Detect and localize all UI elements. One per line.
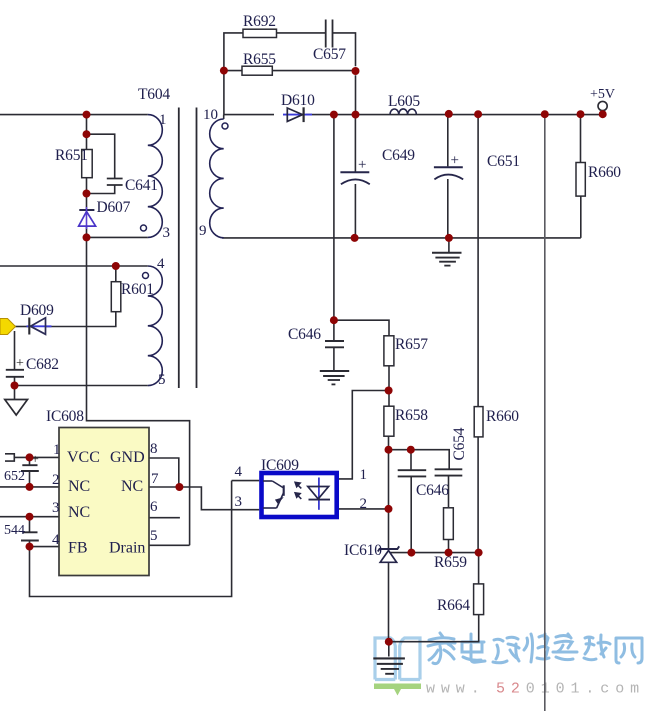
wire IC608 pin8 [149,458,179,487]
wire IC608 pin1 [14,456,59,458]
svg-text:R660: R660 [588,164,621,181]
wire IC610 output row [390,552,479,554]
wire IC608 pin3 [0,516,59,518]
opto transistor [263,481,284,508]
svg-text:9: 9 [199,223,207,239]
svg-text:T604: T604 [138,86,170,103]
svg-text:3: 3 [163,225,171,241]
capacitor C657 [326,20,333,48]
zener IC610 [378,546,399,562]
wire top-left rail to pin1 [0,114,148,116]
svg-text:R657: R657 [395,336,428,353]
resistor R655 [242,66,272,75]
wire C652 stubs [29,457,31,487]
svg-text:C641: C641 [125,177,158,194]
capacitor C649a electrolytic [340,172,369,184]
resistor R601 [111,282,121,312]
svg-text:3: 3 [52,500,60,516]
+5V terminal [598,101,607,110]
wire +5V stub [602,111,604,114]
resistor R664 [474,584,484,615]
svg-text:R601: R601 [121,281,154,298]
ground earth bottom [373,658,405,673]
capacitor C641 [107,179,123,186]
phase dot secondary [222,123,228,129]
svg-text:NC: NC [68,478,90,495]
diode D607 [79,207,96,229]
watermark book icon [375,638,420,680]
wire top rail secondary [224,114,274,116]
svg-text:6: 6 [150,499,158,515]
svg-text:IC609: IC609 [261,457,299,474]
wire zener bottom [388,562,390,641]
wire R657/R658 node left arm [352,390,389,392]
opto LED [308,478,330,510]
wire opto pin1 to R657/R658 node [339,391,352,479]
svg-text:NC: NC [121,478,143,495]
watermark chinese text 家电维修资料网 [428,633,642,664]
svg-text:+: + [16,356,24,371]
capacitor C682 [6,370,24,377]
capacitor C544 [21,532,39,540]
svg-text:R659: R659 [434,554,467,571]
capacitor C652 [21,465,39,471]
svg-text:5: 5 [150,528,158,544]
wire R601 [46,266,116,327]
wire pin5 rail [15,385,148,387]
svg-text:8: 8 [150,441,158,457]
wire C654 to R659 [448,476,450,507]
svg-text:0101.com: 0101.com [526,681,645,698]
wire pin3 [87,236,148,238]
transformer T604 winding 1-3 [148,115,163,238]
IC608 body [59,428,149,576]
wire C682 vertical [14,331,16,399]
wire R659 bottom stub [448,540,450,553]
wire pin4 rail [0,265,148,267]
svg-text:7: 7 [151,471,159,487]
connector bracket pin1 [5,454,14,461]
svg-text:2: 2 [52,472,60,488]
wire C641 branch [87,134,115,193]
svg-text:C651: C651 [487,153,520,170]
svg-text:GND: GND [110,449,145,466]
svg-text:R692: R692 [243,13,276,30]
svg-text:R651: R651 [55,147,88,164]
wire R664 [389,553,479,642]
wire C649a vertical [354,115,356,238]
phase dot winding2 [143,273,149,279]
wire IC608 pin2 [0,486,59,488]
wire opto pin2 [339,508,389,510]
wire clamp vertical x86.5 [87,115,190,546]
resistor R657 [384,336,394,366]
wire IC608 pin4 FB loop [30,481,232,597]
wire snubber loop verticals [224,33,243,115]
svg-text:R658: R658 [395,407,428,424]
svg-text:+5V: +5V [590,87,615,102]
wire C649b vertical [447,114,449,238]
ground earth under C646a [320,371,349,384]
svg-text:D609: D609 [20,302,54,319]
IC609 optocoupler body [262,473,337,517]
resistor R692 [243,29,277,37]
svg-text:R660: R660 [486,408,519,425]
wire R657 bottom [388,366,390,406]
wire long vertical x333.9 [333,115,335,321]
watermark book ribbon [374,684,421,696]
wire C544 stubs [29,517,31,547]
svg-text:4: 4 [52,532,60,548]
capacitor C646a [325,341,344,347]
resistor R658 [384,406,394,436]
resistor R660 mid [474,407,483,437]
resistor R659 [444,508,454,540]
svg-text:IC608: IC608 [46,408,84,425]
wire C646a node [334,320,389,336]
wire IC608 pin7 to opto pin3 [149,487,259,510]
wire pin10 stub [223,115,225,119]
svg-text:IC610: IC610 [344,542,382,559]
svg-text:652: 652 [4,469,25,484]
wire IC608 pin5 drain [149,544,190,546]
capacitor C646b [398,470,427,476]
svg-text:D610: D610 [281,92,315,109]
svg-text:C646: C646 [288,326,321,343]
svg-text:C649: C649 [382,147,415,164]
wire D609 left [15,326,30,328]
svg-text:5: 5 [158,372,166,388]
svg-text:52: 52 [496,681,526,698]
svg-text:2: 2 [360,496,368,512]
svg-text:C682: C682 [26,356,59,373]
ground earth under rail2 [432,253,462,266]
transformer T604 core [179,108,197,389]
svg-text:NC: NC [68,504,90,521]
svg-text:3: 3 [235,494,243,510]
wire opto pin4 [232,480,260,482]
wire R658 bottom node [388,436,390,548]
capacitor C649b electrolytic [434,167,463,179]
resistor R651 [82,150,93,178]
svg-text:L605: L605 [388,93,420,110]
svg-text:C646: C646 [416,482,449,499]
diode D609 [27,318,52,335]
transformer T604 secondary 10-9 [210,119,224,238]
wire IC608 pin6 stub [149,517,180,519]
svg-text:R655: R655 [243,51,276,68]
ground chassis under C682 [5,400,28,416]
svg-text:C657: C657 [313,46,346,63]
phase dot winding1 [141,225,147,231]
svg-text:www.: www. [426,681,486,698]
wire R660 top branch [580,114,582,238]
svg-text:Drain: Drain [109,540,145,557]
svg-text:544: 544 [4,523,25,538]
connector yellow [0,319,16,335]
svg-text:D607: D607 [97,199,131,216]
svg-text:4: 4 [235,464,243,480]
svg-text:1: 1 [53,442,61,458]
wire ground stub under rail2 [448,238,450,252]
capacitor C654 [435,469,463,475]
resistor R660 top [576,163,585,197]
wire bottom rail secondary [222,237,581,239]
svg-text:R664: R664 [437,597,470,614]
transformer T604 winding 4-5 [148,266,163,386]
svg-text:4: 4 [157,256,165,272]
svg-text:+: + [358,157,366,173]
svg-text:1: 1 [159,112,167,128]
wire C646b branch [389,450,450,469]
svg-text:10: 10 [203,107,218,123]
svg-text:FB: FB [68,540,88,557]
inductor L605 [390,109,416,114]
wire vertical x478 from rail [477,114,479,552]
svg-text:+: + [451,153,459,169]
svg-text:C654: C654 [451,427,468,460]
wire ground stub bottom [388,642,390,657]
diode D610 [283,107,312,122]
wire long gray vertical x544.8 [544,114,546,711]
svg-text:1: 1 [360,467,368,483]
svg-text:VCC: VCC [67,449,100,466]
opto light arrows [295,482,302,499]
